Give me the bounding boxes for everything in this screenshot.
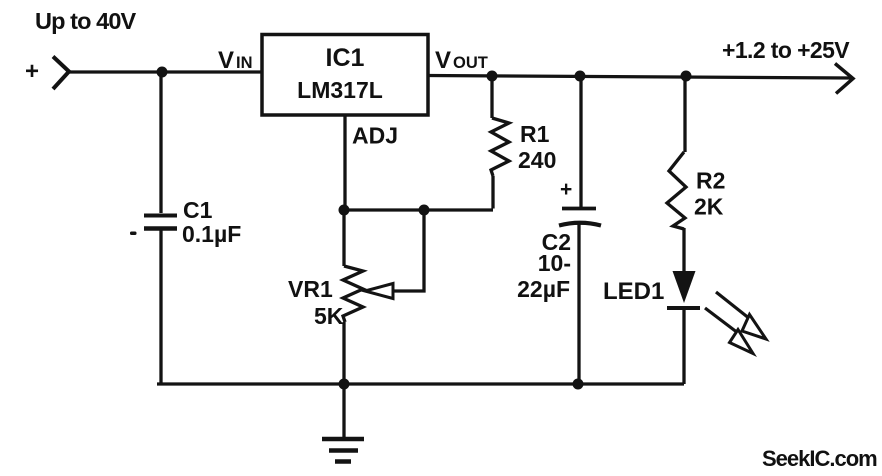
svg-text:IN: IN bbox=[236, 54, 253, 72]
svg-text:LM317L: LM317L bbox=[297, 77, 383, 103]
svg-text:22µF: 22µF bbox=[517, 276, 570, 302]
svg-text:C1: C1 bbox=[183, 197, 213, 223]
svg-text:+: + bbox=[25, 58, 39, 85]
svg-text:OUT: OUT bbox=[453, 54, 488, 72]
svg-text:ADJ: ADJ bbox=[352, 123, 398, 149]
svg-text:10-: 10- bbox=[538, 250, 571, 276]
svg-text:+1.2 to +25V: +1.2 to +25V bbox=[722, 37, 850, 63]
svg-text:+: + bbox=[560, 178, 572, 201]
svg-text:Up to 40V: Up to 40V bbox=[35, 8, 137, 34]
svg-text:SeekIC.com: SeekIC.com bbox=[762, 446, 877, 471]
svg-text:VR1: VR1 bbox=[288, 276, 333, 302]
svg-text:5K: 5K bbox=[314, 303, 344, 329]
svg-text:V: V bbox=[435, 47, 451, 74]
svg-text:R2: R2 bbox=[696, 168, 725, 194]
svg-text:LED1: LED1 bbox=[603, 278, 664, 305]
svg-text:IC1: IC1 bbox=[326, 44, 365, 72]
svg-text:240: 240 bbox=[518, 147, 556, 173]
svg-text:0.1µF: 0.1µF bbox=[182, 221, 241, 247]
svg-text:V: V bbox=[218, 47, 234, 74]
svg-text:R1: R1 bbox=[520, 121, 550, 147]
svg-text:2K: 2K bbox=[694, 194, 724, 220]
